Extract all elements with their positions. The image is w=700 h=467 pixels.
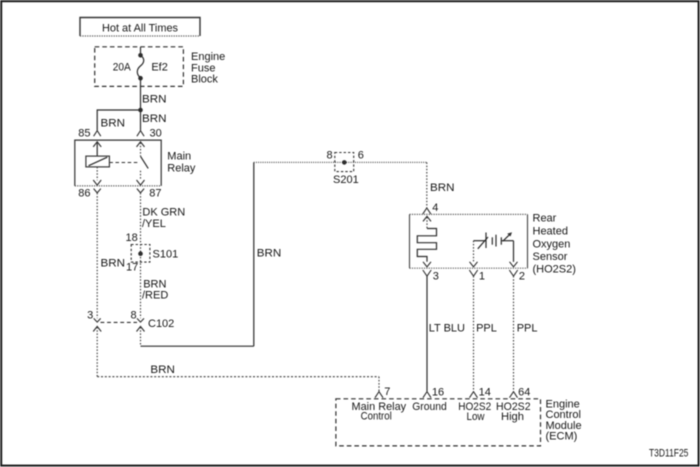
svg-text:BRN: BRN (150, 364, 175, 376)
wire riser up (253, 162, 255, 346)
svg-text:1: 1 (479, 271, 485, 283)
svg-text:17: 17 (126, 262, 138, 274)
svg-text:(ECM): (ECM) (546, 430, 578, 442)
relay box U Main Relay (75, 140, 161, 186)
svg-text:Engine: Engine (191, 51, 225, 63)
cell right leg to pin 2 (510, 241, 518, 267)
svg-text:S101: S101 (153, 249, 179, 261)
svg-text:85: 85 (78, 127, 90, 139)
svg-text:Control: Control (361, 411, 392, 423)
svg-text:Fuse: Fuse (191, 62, 215, 74)
label Main Relay (167, 150, 196, 174)
pin 2 connector (509, 270, 525, 283)
connector C102 pin 3 (87, 310, 101, 332)
sensor pin 4 internal arrow (423, 216, 431, 228)
wire junction down right branch (140, 110, 142, 130)
wire pin2 to ECM 64 (513, 276, 515, 391)
wire down to sensor pin 4 (426, 162, 428, 207)
label Engine Fuse Block (191, 51, 225, 85)
svg-text:LT BLU: LT BLU (429, 323, 465, 335)
svg-text:(HO2S2): (HO2S2) (533, 264, 576, 276)
connector C102 dashed link (101, 321, 138, 323)
svg-text:T3D11F25: T3D11F25 (649, 448, 688, 460)
wire junction to left branch (97, 110, 140, 130)
label BRN /RED (142, 279, 168, 302)
svg-text:20A: 20A (113, 61, 132, 73)
relay pin 30 internal arrow (137, 142, 145, 157)
relay pin 87 internal arrow (137, 171, 145, 185)
pin 30 connector (137, 127, 162, 139)
node junction (138, 108, 143, 113)
svg-text:Oxygen: Oxygen (533, 238, 571, 250)
relay pin 86 internal arrow (93, 167, 101, 185)
svg-text:Heated: Heated (533, 225, 568, 237)
svg-text:14: 14 (479, 387, 491, 399)
fuse Ef2 (113, 53, 168, 80)
label HO2S2 High (496, 401, 531, 423)
svg-text:3: 3 (87, 310, 93, 322)
svg-text:86: 86 (78, 188, 90, 200)
label Engine Control Module (ECM) (546, 399, 582, 443)
wire 87 down to C102 pin 8 (140, 193, 142, 318)
svg-text:PPL: PPL (517, 323, 538, 335)
svg-text:2: 2 (519, 271, 525, 283)
wire horizontal to riser (141, 345, 254, 347)
wire 86 down to C102 pin 3 (96, 193, 98, 318)
wire pin1 to ECM 14 (473, 276, 475, 391)
pin 86 connector (78, 188, 101, 200)
svg-text:Block: Block (191, 74, 218, 86)
pin 85 connector (78, 127, 101, 139)
svg-text:Relay: Relay (167, 163, 196, 175)
ECM pin 16 connector (423, 387, 444, 399)
svg-text:Sensor: Sensor (533, 251, 568, 263)
label Rear Heated Oxygen Sensor (HO2S2) (533, 213, 576, 276)
svg-text:Main: Main (167, 150, 191, 162)
title box Hot at All Times (80, 18, 200, 37)
wire top run to sensor (254, 161, 427, 163)
ECM pin 14 connector (470, 387, 491, 399)
svg-text:Hot at All Times: Hot at All Times (102, 23, 178, 35)
wire C102 pin3 down to bottom run (96, 327, 98, 377)
wire into fuse (140, 47, 142, 55)
svg-text:16: 16 (432, 387, 444, 399)
svg-text:S201: S201 (333, 174, 359, 186)
svg-text:30: 30 (150, 127, 162, 139)
wire fuse to junction (140, 78, 142, 110)
ECM box (dashed) (336, 399, 541, 446)
pin 3 connector (423, 270, 439, 283)
pin 4 connector (423, 202, 439, 214)
label HO2S2 Low (458, 401, 491, 423)
cell left leg to pin 1 (470, 241, 478, 267)
wire C102 pin8 down then right (140, 327, 142, 346)
engine fuse block box (dashed) (95, 47, 184, 87)
svg-text:Low: Low (467, 411, 485, 423)
svg-text:PPL: PPL (476, 323, 497, 335)
svg-text:DK GRN: DK GRN (142, 207, 185, 219)
svg-text:High: High (501, 411, 524, 423)
sensing cell (474, 232, 514, 249)
relay coil (86, 156, 110, 167)
svg-text:87: 87 (149, 188, 161, 200)
splice S201 (335, 153, 354, 172)
svg-text:18: 18 (126, 232, 138, 244)
svg-text:BRN: BRN (430, 182, 455, 194)
svg-text:4: 4 (432, 202, 438, 214)
label Main Relay Control (352, 401, 407, 422)
pin 87 connector (137, 188, 162, 200)
svg-text:8: 8 (326, 150, 332, 162)
svg-text:3: 3 (433, 271, 439, 283)
svg-text:BRN: BRN (101, 118, 126, 130)
relay dashed actuator link (109, 162, 138, 164)
svg-text:64: 64 (518, 387, 530, 399)
heater bottom arrow (423, 262, 431, 267)
svg-text:C102: C102 (148, 318, 174, 330)
wire bottom run BRN to ECM pin 7 (97, 376, 379, 378)
relay pin 85 internal arrow (93, 142, 101, 156)
heater element (417, 229, 436, 262)
svg-text:6: 6 (358, 149, 364, 161)
ECM pin 7 connector (375, 386, 390, 398)
svg-text:BRN: BRN (101, 258, 126, 270)
svg-text:Ground: Ground (412, 401, 447, 413)
ECM pin 64 connector (510, 387, 531, 399)
sensor box HO2S2 (410, 214, 528, 268)
svg-text:7: 7 (384, 386, 390, 398)
svg-text:/YEL: /YEL (142, 218, 166, 230)
label DK GRN /YEL (142, 207, 185, 231)
connector C102 pin 8 (130, 309, 144, 331)
svg-text:8: 8 (130, 309, 136, 321)
relay switch blade (141, 156, 149, 168)
pin 1 connector (469, 270, 485, 283)
svg-text:/RED: /RED (142, 290, 168, 302)
splice S101 (131, 245, 150, 263)
svg-text:BRN: BRN (142, 93, 167, 105)
wire pin3 to ECM 16 (426, 276, 428, 391)
svg-text:Ef2: Ef2 (151, 61, 168, 73)
svg-text:BRN: BRN (257, 247, 282, 259)
svg-text:BRN: BRN (142, 113, 167, 125)
svg-text:Rear: Rear (533, 213, 557, 225)
